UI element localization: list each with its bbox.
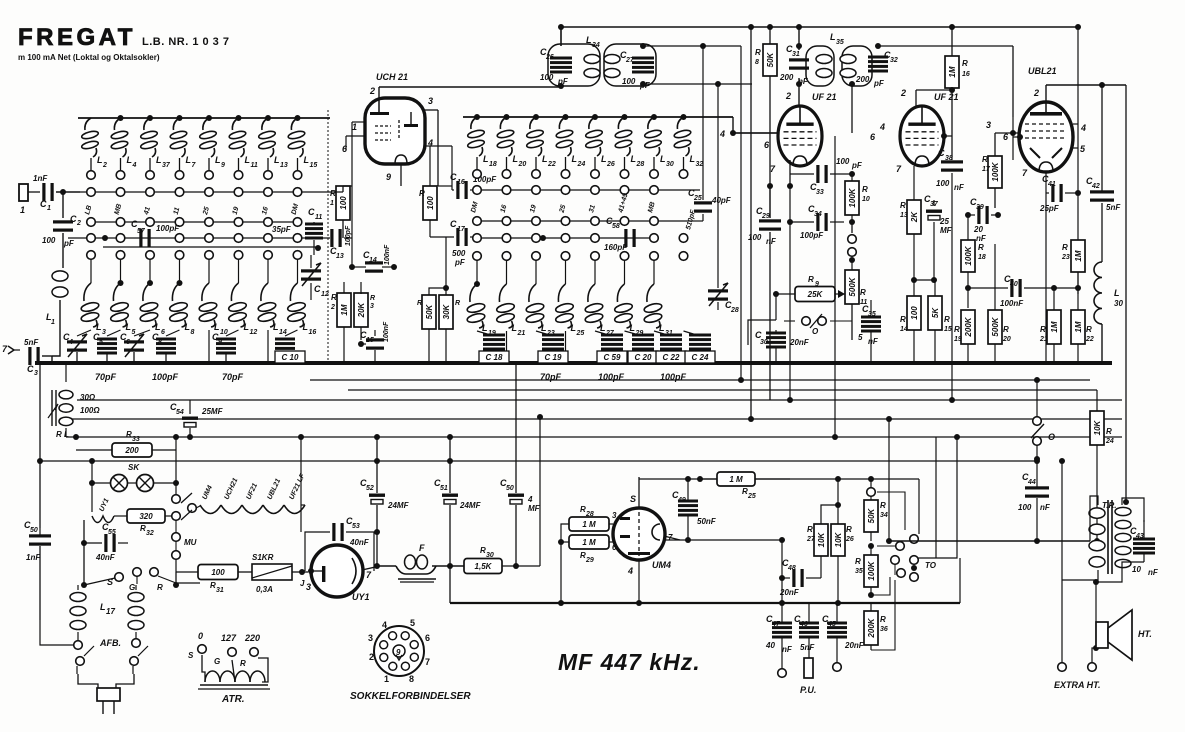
svg-text:28: 28 xyxy=(730,307,739,314)
wire c50b down xyxy=(537,414,543,566)
label 70pF bankA xyxy=(95,372,117,382)
terminal S xyxy=(81,573,123,588)
svg-text:58: 58 xyxy=(612,223,620,230)
resistor R15 5K xyxy=(928,280,952,363)
resistor R3 20K xyxy=(354,282,375,340)
switch contact A3 col7 xyxy=(264,234,273,243)
svg-text:50: 50 xyxy=(506,485,514,492)
svg-text:45: 45 xyxy=(827,621,836,628)
switch contact A4 col4 xyxy=(175,251,184,260)
svg-text:EXTRA HT.: EXTRA HT. xyxy=(1054,680,1101,690)
inductor L6 xyxy=(134,259,165,336)
svg-text:52: 52 xyxy=(366,485,374,492)
wire extraht xyxy=(1059,458,1096,662)
label EXTRA HT xyxy=(1054,680,1101,690)
wire UCH21 left pins xyxy=(346,122,365,267)
svg-text:25: 25 xyxy=(576,330,585,337)
svg-text:50nF: 50nF xyxy=(697,517,717,526)
svg-text:1nF: 1nF xyxy=(26,553,41,562)
capacitor C33 xyxy=(790,157,863,196)
svg-text:100: 100 xyxy=(748,233,762,242)
resistor R6 30K xyxy=(439,295,460,363)
svg-text:pF: pF xyxy=(873,79,885,88)
switch AFB 2 xyxy=(130,646,148,674)
switch R11 top contacts xyxy=(848,235,857,263)
wire ladder y459 xyxy=(40,460,1037,462)
svg-text:R: R xyxy=(755,48,761,57)
inductor L15 with terminal xyxy=(288,115,318,179)
svg-text:13: 13 xyxy=(336,253,344,260)
svg-text:1,5K: 1,5K xyxy=(475,562,493,571)
svg-text:L: L xyxy=(156,155,162,165)
wire AFB left xyxy=(40,620,74,645)
dial lamp 1 xyxy=(111,463,141,492)
label UF21 b xyxy=(934,92,959,102)
svg-text:R: R xyxy=(880,501,886,510)
svg-text:nF: nF xyxy=(1040,503,1051,512)
switch contact A1 col4 xyxy=(173,188,184,216)
svg-text:200K: 200K xyxy=(867,617,876,638)
svg-text:0,3A: 0,3A xyxy=(256,585,273,594)
inductor L24 xyxy=(556,114,586,178)
inductor L30 output xyxy=(1094,262,1123,363)
svg-text:L: L xyxy=(571,323,577,333)
svg-text:4: 4 xyxy=(68,339,73,346)
svg-text:MF: MF xyxy=(940,226,953,235)
svg-text:S: S xyxy=(188,651,194,660)
resistor R24 10K xyxy=(1090,390,1114,544)
svg-text:500K: 500K xyxy=(848,276,857,296)
switch contact B4 col8 xyxy=(679,252,688,261)
wire IFT2 leads xyxy=(796,46,1013,133)
svg-text:L: L xyxy=(97,155,103,165)
svg-text:pF: pF xyxy=(851,161,863,170)
svg-text:nF: nF xyxy=(868,337,879,346)
switch contact B1 col5 xyxy=(588,186,599,214)
tube UBL21 xyxy=(1019,102,1073,172)
svg-text:5: 5 xyxy=(132,329,136,336)
switch contact A1 col8 xyxy=(291,188,302,216)
inductor L3 xyxy=(77,259,106,336)
wire C1 out xyxy=(56,191,80,193)
svg-text:15: 15 xyxy=(944,326,952,333)
wire UF21b pin2 xyxy=(916,87,955,106)
svg-text:44: 44 xyxy=(1027,479,1036,486)
title LB.NR.1037 xyxy=(142,36,229,48)
svg-text:5: 5 xyxy=(858,333,863,342)
svg-text:20: 20 xyxy=(518,161,527,168)
switch contact A4 col8 xyxy=(293,251,302,260)
svg-text:R: R xyxy=(157,583,163,592)
svg-text:500: 500 xyxy=(452,249,466,258)
wire bank B top bus xyxy=(463,116,733,118)
label 100pF bankB xyxy=(598,372,625,382)
svg-text:30: 30 xyxy=(760,339,768,346)
wire R28 R29 left xyxy=(558,524,569,606)
svg-text:24: 24 xyxy=(1105,438,1114,445)
svg-text:25: 25 xyxy=(747,493,756,500)
capacitor C31 xyxy=(779,43,809,86)
capacitor C16 xyxy=(450,146,497,199)
inductor L29 xyxy=(614,260,644,337)
switch contact A3 col2 xyxy=(116,234,125,243)
svg-text:220: 220 xyxy=(244,633,260,643)
svg-text:C 22: C 22 xyxy=(663,353,680,362)
resistor R22 1M xyxy=(1071,272,1094,363)
wire switch to bus xyxy=(784,320,852,322)
svg-text:100K: 100K xyxy=(991,161,1000,181)
capacitor C45 20nF xyxy=(822,603,865,662)
terminal extra ht 1 xyxy=(1058,663,1067,672)
capacitor C19 xyxy=(542,334,564,357)
svg-text:L: L xyxy=(659,323,665,333)
svg-text:35: 35 xyxy=(836,39,844,46)
switch contact B2 col2 xyxy=(502,217,511,226)
wire IFT1 sec leads xyxy=(640,43,752,87)
svg-text:50K: 50K xyxy=(766,51,775,67)
svg-text:29: 29 xyxy=(585,557,594,564)
svg-text:320: 320 xyxy=(139,512,153,521)
capacitor C51 24MF xyxy=(434,434,482,603)
capacitor C39 xyxy=(965,197,1001,243)
svg-text:2: 2 xyxy=(369,652,374,662)
svg-text:L: L xyxy=(185,322,191,332)
svg-text:HT.: HT. xyxy=(1138,629,1152,639)
wire UF21a pin7 xyxy=(787,160,793,189)
switch contact A2 col8 xyxy=(293,218,302,227)
svg-text:100: 100 xyxy=(42,236,56,245)
capacitor C52 24MF xyxy=(360,434,410,569)
svg-text:8: 8 xyxy=(191,329,195,336)
wire ladder y380 xyxy=(310,379,1090,381)
svg-text:53: 53 xyxy=(352,523,360,530)
resistor R30 1.5K xyxy=(464,546,540,574)
svg-text:16: 16 xyxy=(962,71,970,78)
capacitor C43 10nF xyxy=(1122,498,1159,577)
resistor R17 100K xyxy=(982,133,1002,208)
svg-text:R: R xyxy=(880,615,886,624)
resistor R29 1M xyxy=(569,535,617,564)
svg-text:46: 46 xyxy=(799,621,808,628)
wire switch col x176 xyxy=(173,434,179,494)
mains plug xyxy=(78,674,134,714)
svg-text:100pF: 100pF xyxy=(800,231,824,240)
label C24 xyxy=(685,351,715,363)
heater UY1 bumps xyxy=(92,497,114,522)
label C18 xyxy=(479,351,509,363)
svg-text:3: 3 xyxy=(368,633,373,643)
svg-text:2: 2 xyxy=(785,91,791,101)
svg-text:1 M: 1 M xyxy=(582,520,596,529)
svg-text:34: 34 xyxy=(592,42,600,49)
svg-text:100nF: 100nF xyxy=(1000,299,1024,308)
svg-text:C: C xyxy=(27,364,34,374)
svg-text:TO: TO xyxy=(925,561,937,570)
svg-text:pF: pF xyxy=(63,239,75,248)
capacitor C26 xyxy=(540,47,572,86)
svg-text:4: 4 xyxy=(1080,123,1086,133)
svg-text:7: 7 xyxy=(425,657,430,667)
capacitor C15 xyxy=(358,321,390,363)
svg-text:1M: 1M xyxy=(948,66,957,77)
svg-text:100K: 100K xyxy=(964,245,973,265)
capacitor C24 xyxy=(689,334,711,357)
inductor L20 xyxy=(497,114,527,178)
node pin6 xyxy=(1013,117,1023,160)
inductor L17b xyxy=(128,585,144,638)
svg-text:4: 4 xyxy=(719,129,725,139)
svg-text:20K: 20K xyxy=(357,301,366,318)
resistor R33 200 xyxy=(76,430,176,457)
svg-text:C 19: C 19 xyxy=(545,353,562,362)
svg-text:C 24: C 24 xyxy=(692,353,709,362)
label AFB xyxy=(99,638,121,648)
svg-text:O: O xyxy=(1048,432,1055,442)
resistor R36 200K xyxy=(864,580,895,650)
switch contact A3 col1 xyxy=(87,234,96,243)
svg-text:17: 17 xyxy=(457,226,466,233)
wire antenna xyxy=(28,191,40,193)
wire UCH21 pin9 xyxy=(400,164,402,186)
heater chain bumps xyxy=(200,472,307,513)
wire bottom y603 xyxy=(450,558,960,603)
capacitor C37 25MF xyxy=(924,194,953,280)
svg-text:2: 2 xyxy=(1033,88,1039,98)
svg-text:25: 25 xyxy=(939,217,949,226)
switch contact A1 col6 xyxy=(232,188,243,216)
resistor R18 100K xyxy=(961,215,986,308)
switch contact A1 col7 xyxy=(261,188,272,216)
svg-text:36: 36 xyxy=(880,626,888,633)
inductor L9 with terminal xyxy=(199,115,225,179)
inductor L32 xyxy=(674,114,704,178)
wire bank B pin4 runs xyxy=(719,117,779,139)
wire UCH21 pin4 xyxy=(425,145,452,147)
svg-text:L: L xyxy=(1114,288,1120,298)
svg-text:48: 48 xyxy=(787,565,796,572)
capacitor C50 1nF xyxy=(24,458,51,620)
svg-text:200: 200 xyxy=(124,446,139,455)
svg-text:R: R xyxy=(962,59,968,68)
switch contact A4 col7 xyxy=(264,251,273,260)
svg-text:42: 42 xyxy=(1091,183,1100,190)
svg-text:C 59: C 59 xyxy=(604,353,621,362)
svg-text:3: 3 xyxy=(34,370,38,377)
svg-text:40nF: 40nF xyxy=(349,538,370,547)
inductor L10 xyxy=(198,259,228,363)
capacitor C2 xyxy=(42,214,81,248)
svg-text:R: R xyxy=(808,275,814,284)
svg-text:24: 24 xyxy=(577,161,586,168)
wire left edge down xyxy=(39,363,41,528)
svg-text:R: R xyxy=(978,243,984,252)
wire C11 xyxy=(313,222,315,255)
svg-text:32: 32 xyxy=(890,57,898,64)
svg-text:nF: nF xyxy=(1148,568,1159,577)
capacitor C48 20nF xyxy=(779,537,821,603)
svg-text:30K: 30K xyxy=(442,303,451,319)
svg-text:pF: pF xyxy=(454,258,466,267)
svg-text:30: 30 xyxy=(1114,299,1123,308)
svg-text:20: 20 xyxy=(1002,336,1011,343)
svg-text:37: 37 xyxy=(162,162,171,169)
tube UF21 b xyxy=(900,106,944,166)
wire R1 leads xyxy=(311,186,343,238)
svg-text:27: 27 xyxy=(625,57,635,64)
svg-text:500K: 500K xyxy=(991,316,1000,336)
wire vert x301 xyxy=(298,434,304,532)
wire bank B row 221 xyxy=(477,220,690,222)
svg-text:2: 2 xyxy=(102,162,107,169)
svg-text:R: R xyxy=(1106,427,1112,436)
svg-text:R: R xyxy=(417,300,422,307)
switch contact B3 col8 xyxy=(679,208,697,242)
svg-text:L: L xyxy=(512,323,518,333)
svg-text:L: L xyxy=(126,322,132,332)
switch contact B1 col3 xyxy=(529,186,540,214)
resistor R27 10K xyxy=(806,502,841,578)
svg-text:4: 4 xyxy=(382,620,387,630)
svg-text:G: G xyxy=(214,657,220,666)
svg-text:34: 34 xyxy=(880,512,888,519)
svg-text:FREGAT: FREGAT xyxy=(18,24,136,51)
svg-text:35pF: 35pF xyxy=(272,225,292,234)
svg-text:nF: nF xyxy=(782,645,793,654)
capacitor C22 xyxy=(660,334,682,357)
svg-text:nF: nF xyxy=(976,234,987,243)
capacitor C38 xyxy=(936,148,965,403)
pin labels UBL21 xyxy=(1003,88,1039,178)
svg-text:40: 40 xyxy=(765,641,775,650)
svg-text:3: 3 xyxy=(986,120,991,130)
svg-text:R: R xyxy=(900,315,906,324)
terminal PU right xyxy=(833,663,842,672)
inductor L13 with terminal xyxy=(258,115,288,179)
svg-text:1M: 1M xyxy=(1074,250,1083,261)
svg-text:1: 1 xyxy=(20,205,25,215)
svg-text:100: 100 xyxy=(836,157,850,166)
svg-text:R: R xyxy=(944,315,950,324)
svg-text:100: 100 xyxy=(910,306,919,320)
switch contact B3 col1 xyxy=(473,234,482,243)
switch contact A4 col2 xyxy=(116,251,125,260)
svg-text:40nF: 40nF xyxy=(95,553,116,562)
svg-text:R: R xyxy=(455,300,460,307)
wire C2 drop xyxy=(62,192,64,218)
svg-text:6: 6 xyxy=(161,329,165,336)
dial lamp 2 xyxy=(137,475,154,492)
resistor R11 500K xyxy=(845,260,867,340)
svg-text:32: 32 xyxy=(146,530,154,537)
svg-text:50: 50 xyxy=(30,527,38,534)
resistor R34 50K xyxy=(864,476,888,549)
svg-text:25: 25 xyxy=(693,195,702,202)
label SOKKELFORBINDELSER xyxy=(350,691,471,702)
svg-text:1M: 1M xyxy=(340,304,349,315)
capacitor C8 xyxy=(152,332,176,363)
switch contact B4 col7 xyxy=(650,252,659,261)
svg-text:2: 2 xyxy=(330,304,335,311)
fuse S1KR xyxy=(252,553,308,594)
wire R13 C37 join xyxy=(911,277,937,296)
wire bank A row 246 xyxy=(103,246,318,248)
transformer RL xyxy=(48,363,100,439)
switch contact A2 col1 xyxy=(87,218,96,227)
terminal L17b bot xyxy=(132,639,141,648)
inductor L1 xyxy=(46,271,68,356)
switch contact B1 col2 xyxy=(500,186,511,214)
autotransformer ATR coil xyxy=(198,655,270,689)
svg-text:28: 28 xyxy=(585,511,594,518)
svg-text:1: 1 xyxy=(51,319,55,326)
label 100pF bankA xyxy=(152,372,179,382)
terminal ATR 220 xyxy=(240,633,260,668)
svg-text:12: 12 xyxy=(250,329,258,336)
svg-text:9: 9 xyxy=(386,172,391,182)
svg-text:L: L xyxy=(303,322,309,332)
wire bank B row 238 xyxy=(477,235,654,241)
svg-text:27: 27 xyxy=(806,536,816,543)
subtitle xyxy=(18,53,160,62)
svg-text:35: 35 xyxy=(868,311,876,318)
wire pin4 xyxy=(1073,24,1086,294)
switch heater top xyxy=(172,493,192,503)
svg-text:3: 3 xyxy=(370,303,374,310)
svg-text:24MF: 24MF xyxy=(459,501,482,510)
svg-text:14: 14 xyxy=(900,326,908,333)
pin labels UF21 b xyxy=(870,88,906,174)
svg-text:L: L xyxy=(830,32,836,42)
pin labels UF21 a xyxy=(764,91,791,174)
wire mid verticals xyxy=(343,185,452,187)
svg-text:10: 10 xyxy=(862,196,870,203)
resistor R2 1M xyxy=(330,282,351,363)
switch MU contacts xyxy=(172,510,197,588)
terminal R mid xyxy=(150,568,163,592)
svg-text:100: 100 xyxy=(339,196,348,210)
svg-text:S: S xyxy=(630,494,636,504)
switch contact A2 col3 xyxy=(146,218,155,227)
svg-text:L: L xyxy=(186,155,192,165)
svg-text:R: R xyxy=(419,189,425,198)
svg-text:4: 4 xyxy=(627,566,633,576)
wire x751 down xyxy=(748,27,754,422)
svg-text:50K: 50K xyxy=(425,303,434,319)
capacitor C50b 4MF xyxy=(500,363,541,569)
switch contact A3 col8 xyxy=(293,234,302,243)
svg-text:19: 19 xyxy=(954,336,962,343)
svg-text:L: L xyxy=(572,154,578,164)
inductor L37 with terminal xyxy=(140,115,171,179)
svg-text:L: L xyxy=(96,322,102,332)
svg-text:L: L xyxy=(155,322,161,332)
svg-text:100pF: 100pF xyxy=(660,372,687,382)
svg-text:8: 8 xyxy=(409,674,414,684)
wire lamp row xyxy=(89,458,179,486)
terminal ATR 127 xyxy=(214,633,237,666)
switch contact A2 col7 xyxy=(264,218,273,227)
svg-text:57: 57 xyxy=(137,228,146,235)
switch contact A1 col1 xyxy=(84,188,95,216)
switch TO contacts xyxy=(877,434,960,581)
svg-text:22: 22 xyxy=(547,161,556,168)
svg-text:AFB.: AFB. xyxy=(99,638,121,648)
svg-text:51: 51 xyxy=(440,485,448,492)
svg-text:R: R xyxy=(862,185,868,194)
capacitor C53b 40nF xyxy=(305,516,374,571)
svg-text:32: 32 xyxy=(696,161,704,168)
switch contact B2 col6 xyxy=(620,217,629,226)
